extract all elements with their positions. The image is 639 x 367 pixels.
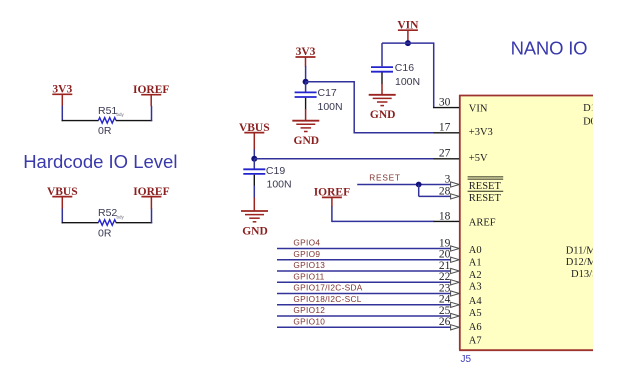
wire <box>62 120 99 122</box>
svg-text:30: 30 <box>439 97 451 109</box>
wire <box>305 66 307 82</box>
pin name RESET (active low) <box>468 177 504 192</box>
wire <box>151 209 153 224</box>
wire <box>277 270 451 272</box>
wire <box>277 304 451 306</box>
pin 21 (A2) arrow <box>451 268 460 273</box>
svg-text:R52: R52 <box>98 207 117 219</box>
power port 3V3 (left) <box>52 84 72 107</box>
pin 17 (+3V3) <box>434 132 460 134</box>
svg-text:D12/MISO: D12/MISO <box>566 257 614 268</box>
svg-text:0R: 0R <box>98 227 112 239</box>
wire <box>62 222 99 224</box>
wire <box>253 159 255 169</box>
wire <box>277 315 451 317</box>
wire <box>61 106 63 121</box>
svg-text:GPIO18/I2C-SCL: GPIO18/I2C-SCL <box>293 294 361 304</box>
svg-text:19: 19 <box>439 237 451 249</box>
wire <box>332 220 434 222</box>
pin 26 (A7) arrow <box>451 325 460 330</box>
wire <box>254 158 434 160</box>
pin name RESET (active low, pin 28) <box>468 191 504 204</box>
power port VBUS (left) <box>47 186 78 209</box>
wire <box>61 209 63 224</box>
svg-text:bdy: bdy <box>117 112 125 117</box>
svg-text:22: 22 <box>439 271 451 283</box>
svg-text:GND: GND <box>294 135 320 147</box>
pin 25 (A6) arrow <box>451 313 460 318</box>
wire <box>381 84 383 95</box>
wire <box>419 195 452 197</box>
pin 3 (RESET) arrow <box>451 182 460 187</box>
svg-text:24: 24 <box>439 294 451 306</box>
svg-text:D1/TX: D1/TX <box>583 103 613 114</box>
svg-text:GPIO11: GPIO11 <box>293 272 324 282</box>
svg-text:GPIO10: GPIO10 <box>293 317 325 327</box>
svg-text:17: 17 <box>439 122 451 134</box>
svg-text:D11/MOSI: D11/MOSI <box>566 246 613 257</box>
svg-text:NANO IO: NANO IO <box>511 38 588 59</box>
wire <box>116 120 152 122</box>
power port IOREF (left top) <box>133 84 169 106</box>
junction <box>416 182 422 188</box>
pin 18 (AREF) <box>434 220 460 222</box>
wire <box>277 259 451 261</box>
wire <box>277 281 451 283</box>
wire <box>354 132 434 134</box>
wire <box>357 184 451 186</box>
pin 22 (A3) arrow <box>451 280 460 285</box>
pin 20 (A1) arrow <box>451 257 460 262</box>
wire <box>381 73 383 85</box>
ground <box>369 95 396 121</box>
power port VBUS (middle) <box>239 122 270 150</box>
svg-text:100N: 100N <box>267 178 292 190</box>
junction <box>405 40 411 46</box>
svg-text:100N: 100N <box>395 76 420 88</box>
wire <box>277 248 451 250</box>
svg-text:A6: A6 <box>469 322 482 333</box>
svg-text:RESET: RESET <box>469 181 502 192</box>
wire <box>277 326 451 328</box>
svg-text:GPIO9: GPIO9 <box>293 249 320 259</box>
capacitor C16 <box>371 67 393 72</box>
wire <box>305 109 307 121</box>
svg-text:25: 25 <box>439 305 451 317</box>
pin 27 (+5V) <box>434 158 460 160</box>
power port VIN <box>397 19 419 43</box>
wire <box>381 43 383 66</box>
svg-text:A2: A2 <box>469 270 482 281</box>
svg-text:RESET: RESET <box>369 173 400 183</box>
svg-text:+3V3: +3V3 <box>469 127 493 138</box>
svg-text:VIN: VIN <box>469 104 488 115</box>
svg-text:A7: A7 <box>469 336 482 347</box>
svg-text:D13/SCK: D13/SCK <box>571 269 613 280</box>
svg-text:C16: C16 <box>395 62 414 74</box>
resistor R52 <box>98 220 116 226</box>
wire <box>418 185 420 197</box>
wire <box>253 175 255 186</box>
svg-text:26: 26 <box>439 316 451 328</box>
pin 28 (RESET) arrow <box>451 194 460 199</box>
junction <box>251 156 257 162</box>
junction <box>303 79 309 85</box>
svg-text:28: 28 <box>439 185 451 197</box>
power port IOREF (middle) <box>314 187 350 207</box>
wire <box>305 82 307 92</box>
svg-text:0R: 0R <box>98 125 112 137</box>
svg-text:AREF: AREF <box>469 218 496 229</box>
wire <box>305 98 307 110</box>
svg-text:20: 20 <box>439 249 451 261</box>
svg-text:18: 18 <box>439 210 451 222</box>
pin 23 (A4) arrow <box>451 291 460 296</box>
svg-text:+5V: +5V <box>469 153 488 164</box>
ground <box>241 211 268 237</box>
wire <box>433 43 435 108</box>
pin 30 (VIN) <box>433 107 459 109</box>
svg-text:A0: A0 <box>469 245 482 256</box>
svg-text:A5: A5 <box>469 308 482 319</box>
pin 19 (A0) arrow <box>451 246 460 251</box>
svg-text:GND: GND <box>242 225 268 237</box>
resistor R51 <box>98 118 116 124</box>
wire <box>253 197 255 211</box>
power port 3V3 (middle) <box>296 46 316 66</box>
svg-text:C19: C19 <box>266 165 285 177</box>
svg-text:GPIO12: GPIO12 <box>293 305 325 315</box>
svg-text:A1: A1 <box>469 257 482 268</box>
svg-text:3: 3 <box>445 173 451 185</box>
svg-text:27: 27 <box>439 148 451 160</box>
connector J5 NANO IO body <box>459 95 593 350</box>
svg-text:23: 23 <box>439 282 451 294</box>
svg-text:GPIO4: GPIO4 <box>293 238 320 248</box>
svg-text:Hardcode IO Level: Hardcode IO Level <box>23 151 177 172</box>
svg-text:A4: A4 <box>469 296 483 307</box>
wire <box>331 207 333 223</box>
wire <box>382 42 434 44</box>
wire <box>116 222 152 224</box>
wire <box>306 81 355 83</box>
wire <box>353 82 355 134</box>
wire <box>277 293 451 295</box>
label R52 <box>98 207 125 219</box>
wire <box>253 186 255 198</box>
svg-text:R51: R51 <box>98 105 117 117</box>
ground <box>292 121 319 147</box>
label R51 <box>98 105 125 117</box>
svg-text:RESET: RESET <box>469 193 502 204</box>
svg-text:J5: J5 <box>461 354 472 365</box>
svg-text:GPIO17/I2C-SDA: GPIO17/I2C-SDA <box>293 283 362 293</box>
wire <box>253 149 255 158</box>
capacitor C17 <box>295 92 317 97</box>
pin 24 (A5) arrow <box>451 302 460 307</box>
capacitor C19 <box>243 169 265 174</box>
svg-text:C17: C17 <box>318 87 337 99</box>
svg-text:21: 21 <box>439 260 451 272</box>
svg-text:100N: 100N <box>318 101 343 113</box>
power port IOREF (left bottom) <box>133 186 169 209</box>
svg-text:bdy: bdy <box>117 214 125 219</box>
svg-text:D0/RX: D0/RX <box>583 117 614 128</box>
svg-text:A3: A3 <box>469 281 482 292</box>
svg-text:GND: GND <box>370 109 396 121</box>
wire <box>151 106 153 121</box>
svg-text:GPIO13: GPIO13 <box>293 260 325 270</box>
